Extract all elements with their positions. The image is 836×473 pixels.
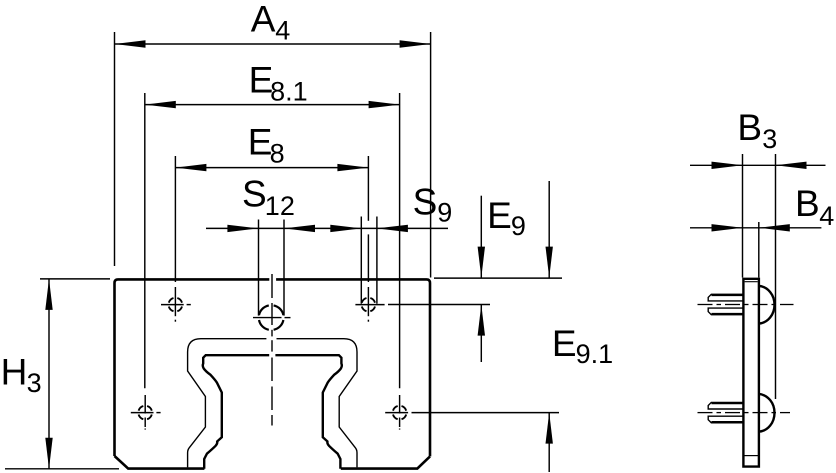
part vertical centerline — [271, 274, 273, 426]
dimension B3 — [690, 154, 826, 399]
upper centerline (side view) — [698, 304, 794, 306]
dimension A4 — [115, 32, 431, 278]
svg-text:B: B — [737, 107, 762, 148]
label E9 — [487, 195, 526, 241]
dimension E9.1 — [546, 181, 553, 472]
channel inner rail profile (heavy) — [203, 355, 342, 469]
svg-text:8.1: 8.1 — [270, 77, 308, 107]
dimension E9 — [478, 196, 485, 362]
part outline (front view) — [115, 279, 431, 468]
dimension S12 / S9 shared line — [206, 217, 448, 304]
center hole S12 bore walls — [258, 220, 260, 316]
svg-text:3: 3 — [762, 124, 777, 154]
label S9 — [413, 181, 453, 227]
lower centerline (side view) — [698, 412, 791, 414]
label S12 — [242, 174, 295, 221]
upper hole centerline extension (to E9) — [388, 304, 490, 306]
svg-text:4: 4 — [819, 201, 834, 231]
label H3 — [1, 352, 42, 399]
upper boss bump — [759, 286, 774, 324]
svg-text:3: 3 — [27, 368, 42, 398]
svg-text:S: S — [242, 174, 267, 215]
svg-text:9.1: 9.1 — [576, 339, 614, 369]
dimension E8.1 — [145, 93, 400, 388]
side plate bottom step line — [743, 455, 759, 457]
hole lower-left — [131, 395, 161, 430]
label B4 — [795, 183, 834, 231]
svg-text:8: 8 — [270, 139, 285, 169]
svg-text:A: A — [251, 0, 276, 40]
svg-text:B: B — [795, 183, 820, 224]
lower hole centerline extension (to E9.1) — [412, 412, 560, 414]
upper screw — [708, 294, 744, 314]
svg-text:S: S — [413, 181, 438, 222]
label A4 — [251, 0, 291, 46]
dimension B4 — [690, 222, 821, 278]
hole upper-left — [161, 287, 191, 322]
top edge extension line (right, for E9/E9.1) — [434, 277, 562, 279]
svg-text:H: H — [1, 352, 28, 393]
label E8 — [248, 121, 285, 168]
hole upper-right — [355, 287, 384, 322]
center hole horizontal centerline — [253, 317, 282, 319]
hole lower-right — [385, 395, 408, 430]
center hole dashed circle — [259, 305, 283, 329]
svg-text:9: 9 — [511, 211, 526, 241]
channel outer pocket profile (thin) — [188, 339, 357, 468]
dimension H3 — [5, 279, 119, 469]
lower boss bump — [759, 394, 774, 432]
label E9.1 — [552, 323, 613, 369]
svg-text:E: E — [552, 323, 577, 364]
dimension E8 — [175, 156, 368, 282]
lower screw — [708, 402, 744, 422]
svg-text:E: E — [487, 195, 512, 236]
svg-text:4: 4 — [275, 16, 290, 46]
side plate outline — [743, 279, 759, 467]
svg-text:12: 12 — [265, 191, 295, 221]
label B3 — [737, 107, 777, 154]
svg-text:9: 9 — [437, 197, 452, 227]
label E8.1 — [249, 59, 308, 106]
